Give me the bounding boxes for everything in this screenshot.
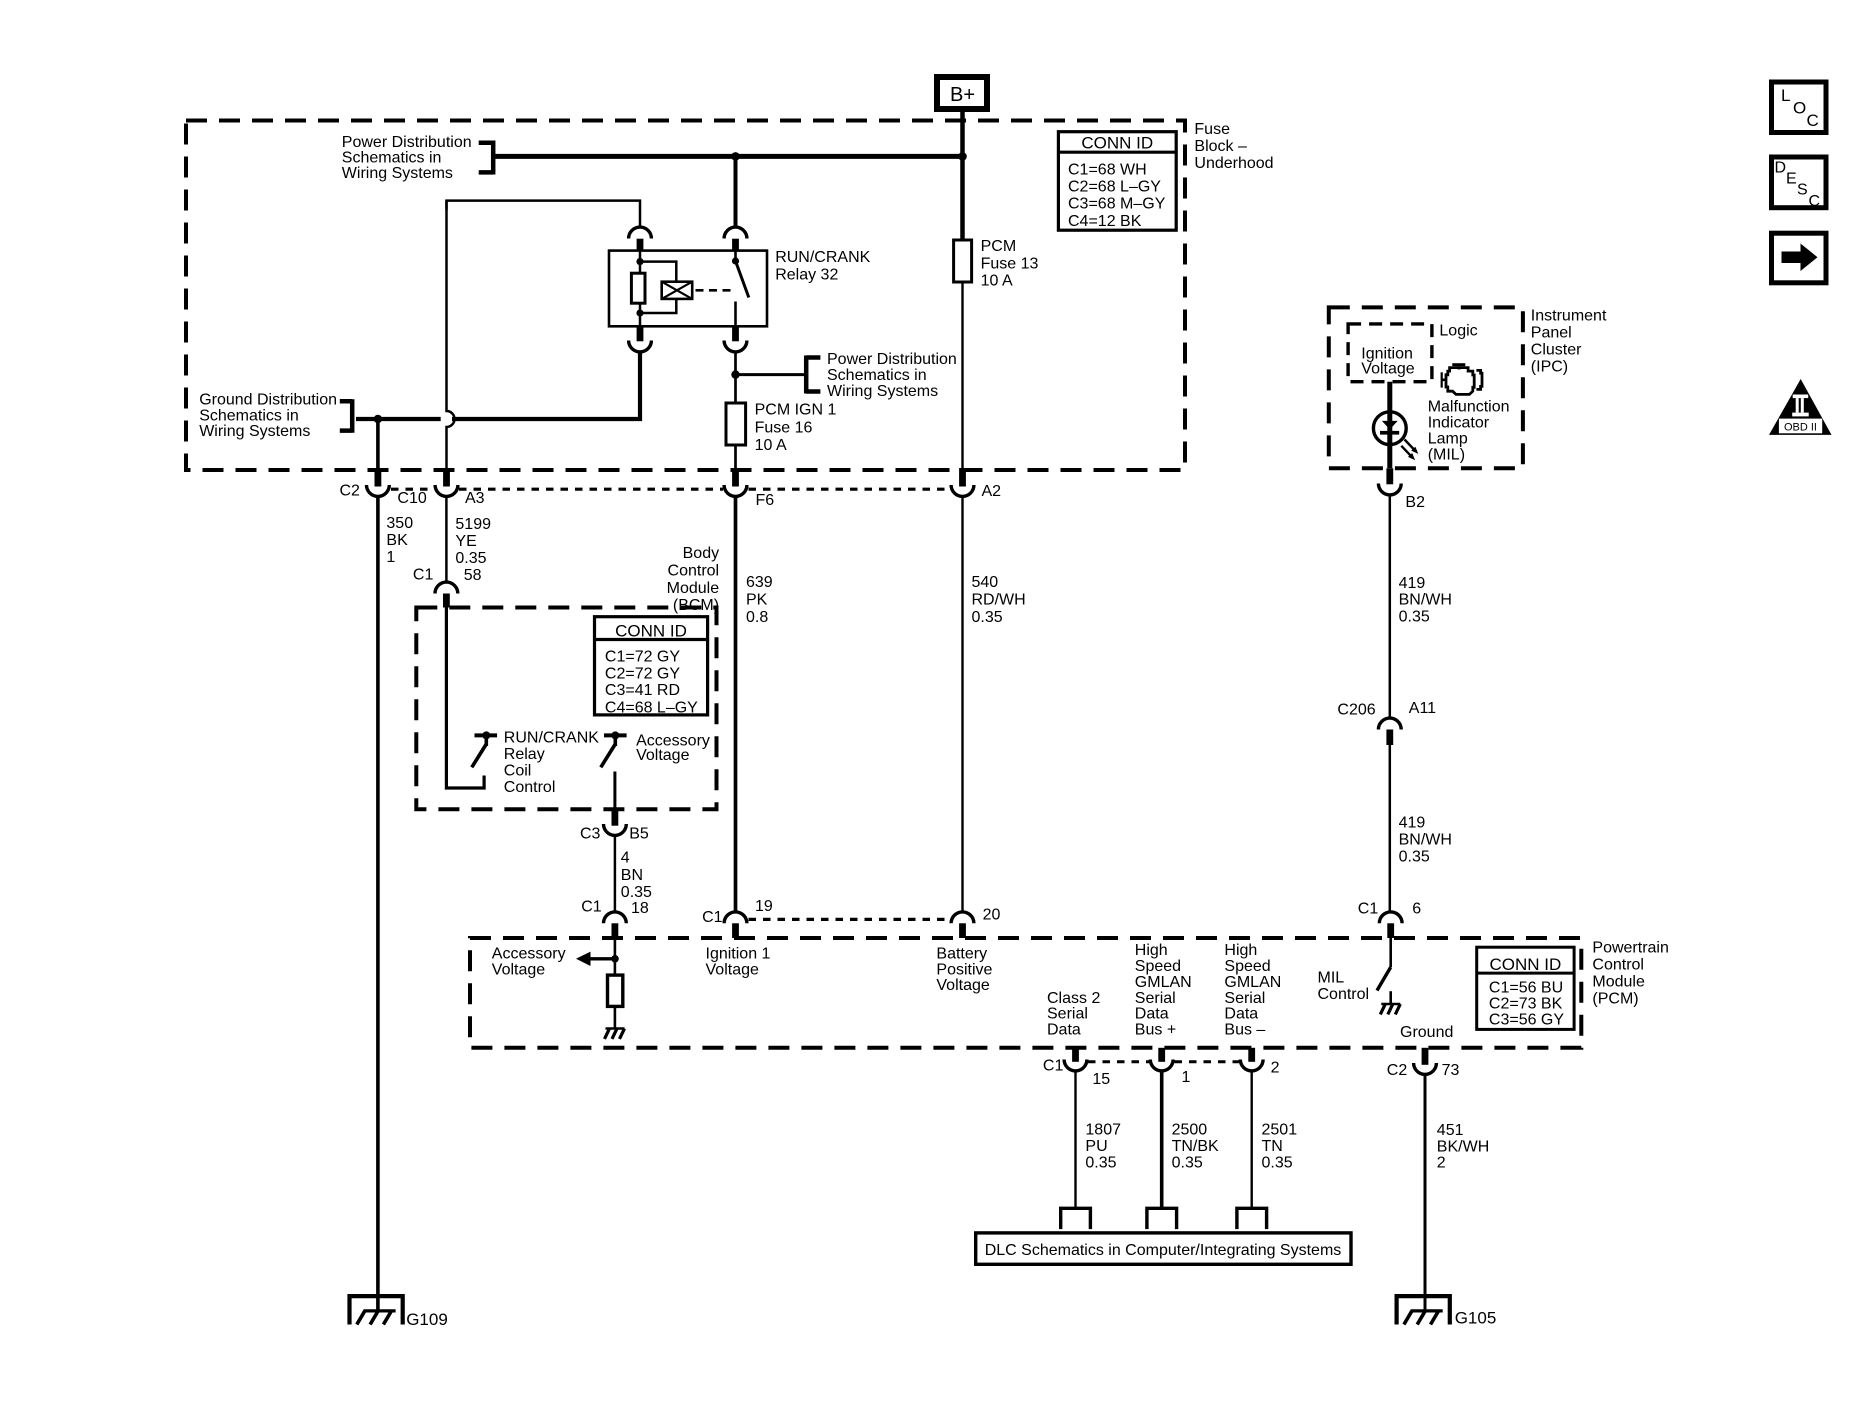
fuse F13 PCM Fuse 13 10A	[954, 238, 1039, 290]
svg-text:CONN ID: CONN ID	[1081, 134, 1153, 153]
svg-text:BN/WH: BN/WH	[1399, 831, 1452, 848]
svg-text:C: C	[1809, 193, 1821, 210]
module BCM dashed box	[416, 608, 716, 810]
wire 1807 PU class 2 serial data	[1074, 1071, 1076, 1209]
label High Speed GMLAN Serial Data Bus -	[1224, 942, 1281, 1039]
svg-text:Schematics in: Schematics in	[199, 407, 299, 424]
connector C1 6 at PCM	[1358, 900, 1421, 938]
logic box dashed	[1348, 324, 1432, 382]
value 451 BK/WH 2	[1437, 1122, 1489, 1171]
wire 451 BK/WH to G105	[1424, 1074, 1427, 1311]
svg-text:S: S	[1797, 182, 1808, 199]
svg-text:Ground Distribution: Ground Distribution	[199, 391, 337, 408]
label MIL Control	[1318, 970, 1370, 1003]
svg-text:Voltage: Voltage	[636, 747, 689, 764]
svg-text:C1: C1	[1043, 1057, 1064, 1074]
label Battery Positive Voltage	[936, 945, 992, 994]
svg-text:0.35: 0.35	[1172, 1154, 1203, 1171]
svg-text:(PCM): (PCM)	[1592, 991, 1638, 1008]
svg-text:C1: C1	[581, 898, 602, 915]
wire 419 BN/WH upper	[1389, 495, 1392, 719]
svg-text:C4=68 L–GY: C4=68 L–GY	[605, 699, 698, 716]
svg-text:Schematics in: Schematics in	[827, 367, 927, 384]
wire connector row dotted	[391, 488, 950, 491]
svg-text:Cluster: Cluster	[1531, 341, 1582, 358]
wire relay coil feed loop	[447, 201, 641, 228]
svg-text:Fuse 13: Fuse 13	[981, 255, 1039, 272]
svg-text:B+: B+	[950, 84, 975, 106]
svg-text:E: E	[1786, 171, 1797, 188]
svg-text:Relay: Relay	[504, 746, 545, 763]
svg-text:Instrument: Instrument	[1531, 307, 1607, 324]
svg-text:Serial: Serial	[1224, 990, 1265, 1007]
svg-text:A3: A3	[465, 490, 485, 507]
label Power Distribution Schematics (top)	[342, 134, 472, 182]
lamp MIL LED indicator	[1373, 412, 1418, 460]
svg-text:Speed: Speed	[1135, 958, 1181, 975]
svg-text:PCM: PCM	[981, 238, 1017, 255]
svg-text:19: 19	[755, 898, 773, 915]
svg-text:PCM IGN 1: PCM IGN 1	[755, 401, 837, 418]
value 350 BK 1	[386, 515, 413, 566]
svg-text:C3: C3	[580, 826, 601, 843]
connector pin relay switch bottom	[724, 326, 747, 352]
fuse F16 PCM IGN 1 Fuse 16 10A	[726, 401, 836, 454]
svg-text:High: High	[1135, 942, 1168, 959]
svg-text:Control: Control	[1318, 986, 1370, 1003]
svg-text:Serial: Serial	[1047, 1006, 1088, 1023]
wire A3 vertical with hop	[441, 201, 455, 469]
svg-text:C: C	[1807, 111, 1819, 130]
svg-text:BK/WH: BK/WH	[1437, 1138, 1489, 1155]
svg-text:Serial: Serial	[1135, 990, 1176, 1007]
ground chassis MIL switch	[1380, 1004, 1400, 1014]
svg-text:15: 15	[1092, 1071, 1110, 1088]
svg-text:73: 73	[1442, 1062, 1460, 1079]
svg-text:Module: Module	[667, 580, 720, 597]
svg-text:Relay 32: Relay 32	[775, 267, 838, 284]
conn-id table fuse block	[1058, 132, 1176, 231]
svg-text:C1=56 BU: C1=56 BU	[1489, 979, 1563, 996]
svg-text:Block –: Block –	[1194, 138, 1247, 155]
switch BCM run/crank relay coil control driver	[472, 731, 497, 767]
svg-text:RD/WH: RD/WH	[972, 592, 1026, 609]
svg-text:2: 2	[1437, 1155, 1446, 1172]
connector C1 15 DLC	[1043, 1048, 1110, 1088]
wire 2501 TN GMLAN bus -	[1250, 1071, 1252, 1209]
svg-text:18: 18	[631, 900, 649, 917]
svg-text:6: 6	[1412, 900, 1421, 917]
svg-text:F6: F6	[756, 492, 775, 509]
svg-text:BN: BN	[621, 867, 643, 884]
wire relay switch output	[734, 352, 737, 403]
svg-text:OBD II: OBD II	[1784, 421, 1817, 433]
value 419 BN/WH 0.35 upper	[1399, 575, 1452, 625]
svg-text:Class 2: Class 2	[1047, 990, 1100, 1007]
svg-text:RUN/CRANK: RUN/CRANK	[504, 730, 599, 747]
svg-text:Bus –: Bus –	[1224, 1022, 1265, 1039]
icon arrow	[1772, 233, 1827, 283]
svg-text:Panel: Panel	[1531, 324, 1572, 341]
conn-id table PCM	[1477, 947, 1574, 1029]
connector 2 DLC	[1240, 1048, 1279, 1077]
wire accessory voltage output	[613, 772, 616, 810]
label Power Distribution Schematics (mid)	[827, 351, 957, 400]
svg-text:Accessory: Accessory	[492, 945, 566, 962]
svg-text:Data: Data	[1224, 1006, 1258, 1023]
svg-text:(IPC): (IPC)	[1531, 358, 1568, 375]
svg-text:Fuse: Fuse	[1194, 121, 1230, 138]
node accessory arrow junction	[611, 955, 619, 963]
svg-text:Malfunction: Malfunction	[1428, 398, 1510, 415]
wire relay coil bottom to ground distribution	[356, 352, 640, 419]
bracket ground distribution	[340, 399, 352, 433]
ground G109	[350, 1296, 448, 1329]
svg-text:C1: C1	[413, 567, 434, 584]
fuse block dashed box	[186, 121, 1185, 471]
wire relay switch feed vertical	[734, 156, 738, 227]
label High Speed GMLAN Serial Data Bus +	[1135, 942, 1192, 1039]
svg-text:B2: B2	[1405, 494, 1425, 511]
svg-text:GMLAN: GMLAN	[1135, 974, 1192, 991]
wire 2500 TN/BK GMLAN bus +	[1160, 1071, 1164, 1209]
svg-text:C1=72 GY: C1=72 GY	[605, 648, 680, 665]
label Accessory Voltage (BCM)	[636, 732, 710, 764]
svg-text:10 A: 10 A	[755, 437, 787, 454]
svg-text:Lamp: Lamp	[1428, 431, 1468, 448]
node junction on power feed at relay branch	[731, 152, 740, 161]
svg-text:C1=68 WH: C1=68 WH	[1068, 162, 1147, 179]
wire connector C1 dotted 19-20	[749, 918, 951, 921]
svg-text:L: L	[1781, 86, 1790, 105]
connector C1 58 at BCM	[413, 567, 482, 608]
svg-text:O: O	[1793, 99, 1806, 118]
svg-text:10 A: 10 A	[981, 273, 1013, 290]
svg-text:C2: C2	[340, 482, 361, 499]
bracket power distribution top	[479, 141, 494, 175]
svg-text:0.35: 0.35	[1262, 1154, 1293, 1171]
connector 1 DLC	[1150, 1048, 1190, 1086]
conn-id table BCM	[595, 617, 708, 717]
label Powertrain Control Module PCM	[1592, 940, 1668, 1008]
connector B2 at IPC	[1378, 468, 1425, 511]
connector A3 row	[435, 468, 485, 507]
svg-text:Battery: Battery	[936, 945, 987, 962]
svg-text:TN/BK: TN/BK	[1172, 1138, 1219, 1155]
svg-text:C2=68 L–GY: C2=68 L–GY	[1068, 179, 1161, 196]
svg-text:G105: G105	[1455, 1309, 1497, 1328]
icon DESC	[1772, 157, 1827, 210]
wire branch to power distribution bracket	[736, 373, 807, 376]
wire 540 RD/WH from fuse 13 to A2	[961, 282, 963, 469]
wire resistor to ground	[614, 1006, 617, 1028]
wire 4 BN 0.35	[614, 835, 617, 913]
svg-text:TN: TN	[1262, 1138, 1283, 1155]
svg-text:Voltage: Voltage	[492, 961, 545, 978]
svg-text:Powertrain: Powertrain	[1592, 940, 1668, 957]
svg-text:Control: Control	[504, 779, 556, 796]
icon engine MIL symbol	[1442, 363, 1482, 394]
svg-text:58: 58	[464, 567, 482, 584]
ground chassis PCM accessory	[605, 1029, 625, 1039]
value 4 BN 0.35	[621, 850, 652, 902]
svg-text:Data: Data	[1135, 1006, 1169, 1023]
svg-text:0.35: 0.35	[455, 550, 486, 567]
terminal DLC bus -	[1237, 1208, 1267, 1229]
svg-text:2501: 2501	[1262, 1122, 1298, 1139]
icon LOC	[1772, 82, 1827, 133]
svg-text:0.35: 0.35	[972, 609, 1003, 626]
connector C3 B5 at BCM	[580, 809, 649, 842]
connector C2 73 at PCM ground	[1387, 1048, 1460, 1079]
wire C2 drop inside fuse block	[376, 419, 380, 469]
svg-text:CONN ID: CONN ID	[615, 622, 687, 641]
relay winding symbol box with X	[640, 262, 692, 313]
svg-text:Ground: Ground	[1400, 1024, 1453, 1041]
terminal DLC class 2	[1061, 1208, 1091, 1229]
label Class 2 Serial Data	[1047, 990, 1100, 1039]
svg-text:G109: G109	[406, 1310, 448, 1329]
svg-text:C3=68 M–GY: C3=68 M–GY	[1068, 196, 1166, 213]
label Instrument Panel Cluster IPC	[1531, 307, 1607, 375]
svg-text:PK: PK	[746, 592, 768, 609]
value 1807 PU 0.35	[1085, 1122, 1121, 1172]
svg-text:1: 1	[386, 549, 395, 566]
svg-text:0.35: 0.35	[1085, 1154, 1116, 1171]
svg-text:A2: A2	[982, 483, 1002, 500]
connector F6 row	[724, 468, 774, 509]
svg-text:Underhood: Underhood	[1194, 155, 1273, 172]
svg-text:C4=12 BK: C4=12 BK	[1068, 213, 1142, 230]
wire 540 RD/WH to PCM	[961, 496, 963, 913]
svg-text:Positive: Positive	[936, 961, 992, 978]
svg-text:Bus +: Bus +	[1135, 1022, 1176, 1039]
svg-text:Module: Module	[1592, 974, 1645, 991]
connector pin relay coil bottom	[629, 326, 652, 352]
svg-text:1: 1	[1182, 1069, 1191, 1086]
svg-text:High: High	[1224, 942, 1257, 959]
connector C2 row	[340, 468, 390, 499]
svg-text:C2=72 GY: C2=72 GY	[605, 666, 680, 683]
terminal DLC bus +	[1147, 1208, 1177, 1229]
svg-text:C2: C2	[1387, 1062, 1408, 1079]
svg-text:YE: YE	[455, 533, 476, 550]
svg-text:419: 419	[1399, 575, 1426, 592]
svg-text:Data: Data	[1047, 1022, 1081, 1039]
svg-text:Body: Body	[683, 545, 719, 562]
svg-text:DLC Schematics in Computer/Int: DLC Schematics in Computer/Integrating S…	[985, 1242, 1342, 1259]
connector C1 18 at PCM	[581, 898, 649, 938]
value 540 RD/WH 0.35	[972, 574, 1026, 626]
svg-text:C206: C206	[1337, 702, 1375, 719]
svg-text:CONN ID: CONN ID	[1490, 955, 1562, 974]
label Accessory Voltage (PCM)	[492, 945, 566, 978]
svg-text:20: 20	[983, 907, 1001, 924]
svg-text:1807: 1807	[1085, 1122, 1121, 1139]
label RUN/CRANK Relay Coil Control	[504, 730, 599, 796]
svg-text:Wiring Systems: Wiring Systems	[342, 165, 453, 182]
connector C206 A11	[1337, 700, 1436, 745]
connector 20 at PCM	[951, 907, 1000, 938]
node coil bottom junction	[636, 309, 643, 316]
svg-text:C1: C1	[1358, 900, 1379, 917]
relay switch contact	[732, 251, 749, 326]
svg-text:C10: C10	[397, 490, 426, 507]
svg-text:451: 451	[1437, 1122, 1464, 1139]
label Malfunction Indicator Lamp MIL	[1428, 398, 1510, 463]
label Ground Distribution Schematics	[199, 391, 337, 440]
module PCM dashed box	[470, 938, 1581, 1048]
svg-text:PU: PU	[1085, 1138, 1107, 1155]
label Fuse Block Underhood	[1194, 121, 1273, 172]
resistor PCM pull element	[608, 975, 623, 1006]
value 639 PK 0.8	[746, 574, 773, 626]
svg-text:C1: C1	[702, 909, 723, 926]
svg-text:639: 639	[746, 574, 773, 591]
switch MIL control driver	[1377, 938, 1391, 1004]
label Ignition Voltage	[1361, 346, 1414, 378]
svg-text:C3=56 GY: C3=56 GY	[1489, 1012, 1564, 1029]
svg-text:RUN/CRANK: RUN/CRANK	[775, 249, 870, 266]
svg-text:540: 540	[972, 574, 999, 591]
svg-text:B5: B5	[629, 826, 649, 843]
svg-text:4: 4	[621, 850, 630, 867]
wire 5199 YE to BCM	[445, 496, 448, 582]
connector A2 row	[951, 468, 1001, 500]
svg-text:GMLAN: GMLAN	[1224, 974, 1281, 991]
label DLC Schematics box	[976, 1233, 1351, 1264]
node junction at B+ vertical	[958, 152, 967, 161]
connector pin relay coil top	[629, 227, 652, 251]
node switch output junction	[731, 370, 739, 378]
node ground wire junction	[374, 415, 382, 423]
svg-text:C2=73 BK: C2=73 BK	[1489, 996, 1563, 1013]
svg-text:Voltage: Voltage	[936, 977, 989, 994]
node coil top junction	[636, 258, 643, 265]
wire accessory voltage input	[614, 938, 617, 975]
connector pin relay switch top	[724, 227, 747, 251]
icon OBD II triangle	[1769, 379, 1832, 435]
svg-text:Voltage: Voltage	[1361, 361, 1414, 378]
svg-text:0.35: 0.35	[621, 884, 652, 901]
svg-text:5199: 5199	[455, 516, 491, 533]
label Ignition 1 Voltage	[706, 945, 771, 978]
switch BCM accessory voltage driver	[601, 731, 627, 767]
svg-text:BK: BK	[386, 532, 408, 549]
svg-text:Ignition 1: Ignition 1	[706, 945, 771, 962]
wire B+ power feed horizontal	[493, 154, 963, 159]
svg-text:Indicator: Indicator	[1428, 414, 1490, 431]
wire 350 BK 1 to G109	[376, 496, 380, 1311]
svg-text:0.35: 0.35	[1399, 848, 1430, 865]
battery B+ symbol	[937, 77, 987, 109]
svg-text:C3=41 RD: C3=41 RD	[605, 682, 680, 699]
svg-text:A11: A11	[1409, 700, 1436, 717]
svg-text:Wiring Systems: Wiring Systems	[827, 383, 938, 400]
ground G105	[1397, 1296, 1497, 1327]
relay mechanical link dashes	[696, 289, 732, 292]
svg-text:Wiring Systems: Wiring Systems	[199, 423, 310, 440]
svg-text:0.8: 0.8	[746, 609, 768, 626]
svg-text:Speed: Speed	[1224, 958, 1270, 975]
svg-text:Control: Control	[1592, 957, 1644, 974]
svg-text:Power Distribution: Power Distribution	[827, 351, 957, 368]
svg-text:MIL: MIL	[1318, 970, 1345, 987]
svg-text:419: 419	[1399, 815, 1426, 832]
wire B+ vertical to fuse 13	[960, 112, 965, 240]
svg-text:(MIL): (MIL)	[1428, 447, 1465, 464]
wire fuse 16 to F6	[734, 445, 737, 469]
arrow accessory voltage pointer	[576, 952, 615, 966]
svg-text:Control: Control	[668, 563, 720, 580]
svg-text:Voltage: Voltage	[706, 961, 759, 978]
value 419 BN/WH 0.35 lower	[1399, 815, 1452, 866]
wire 639 PK to PCM	[734, 496, 738, 913]
relay K32 RUN/CRANK Relay 32 box	[609, 249, 871, 326]
svg-text:BN/WH: BN/WH	[1399, 592, 1452, 609]
module IPC dashed box	[1329, 307, 1523, 468]
svg-text:D: D	[1775, 160, 1787, 177]
svg-text:0.35: 0.35	[1399, 608, 1430, 625]
connector C1 19 at PCM	[702, 898, 773, 938]
svg-text:2: 2	[1271, 1059, 1280, 1076]
svg-text:350: 350	[386, 515, 413, 532]
bracket power distribution mid	[806, 356, 820, 394]
svg-text:Logic: Logic	[1439, 322, 1477, 339]
value 5199 YE 0.35	[455, 516, 491, 567]
svg-text:Fuse 16: Fuse 16	[755, 419, 813, 436]
wire 419 BN/WH lower	[1389, 745, 1392, 913]
svg-text:2500: 2500	[1172, 1122, 1208, 1139]
wire ignition voltage to MIL lamp	[1387, 382, 1392, 469]
wire BCM internal relay coil control	[446, 608, 484, 789]
wire DLC connector dotted	[1088, 1060, 1239, 1063]
svg-text:Coil: Coil	[504, 762, 532, 779]
relay coil resistor element	[631, 251, 645, 326]
value 2501 TN 0.35	[1262, 1122, 1298, 1172]
label Body Control Module BCM	[667, 545, 720, 614]
value 2500 TN/BK 0.35	[1172, 1122, 1219, 1172]
